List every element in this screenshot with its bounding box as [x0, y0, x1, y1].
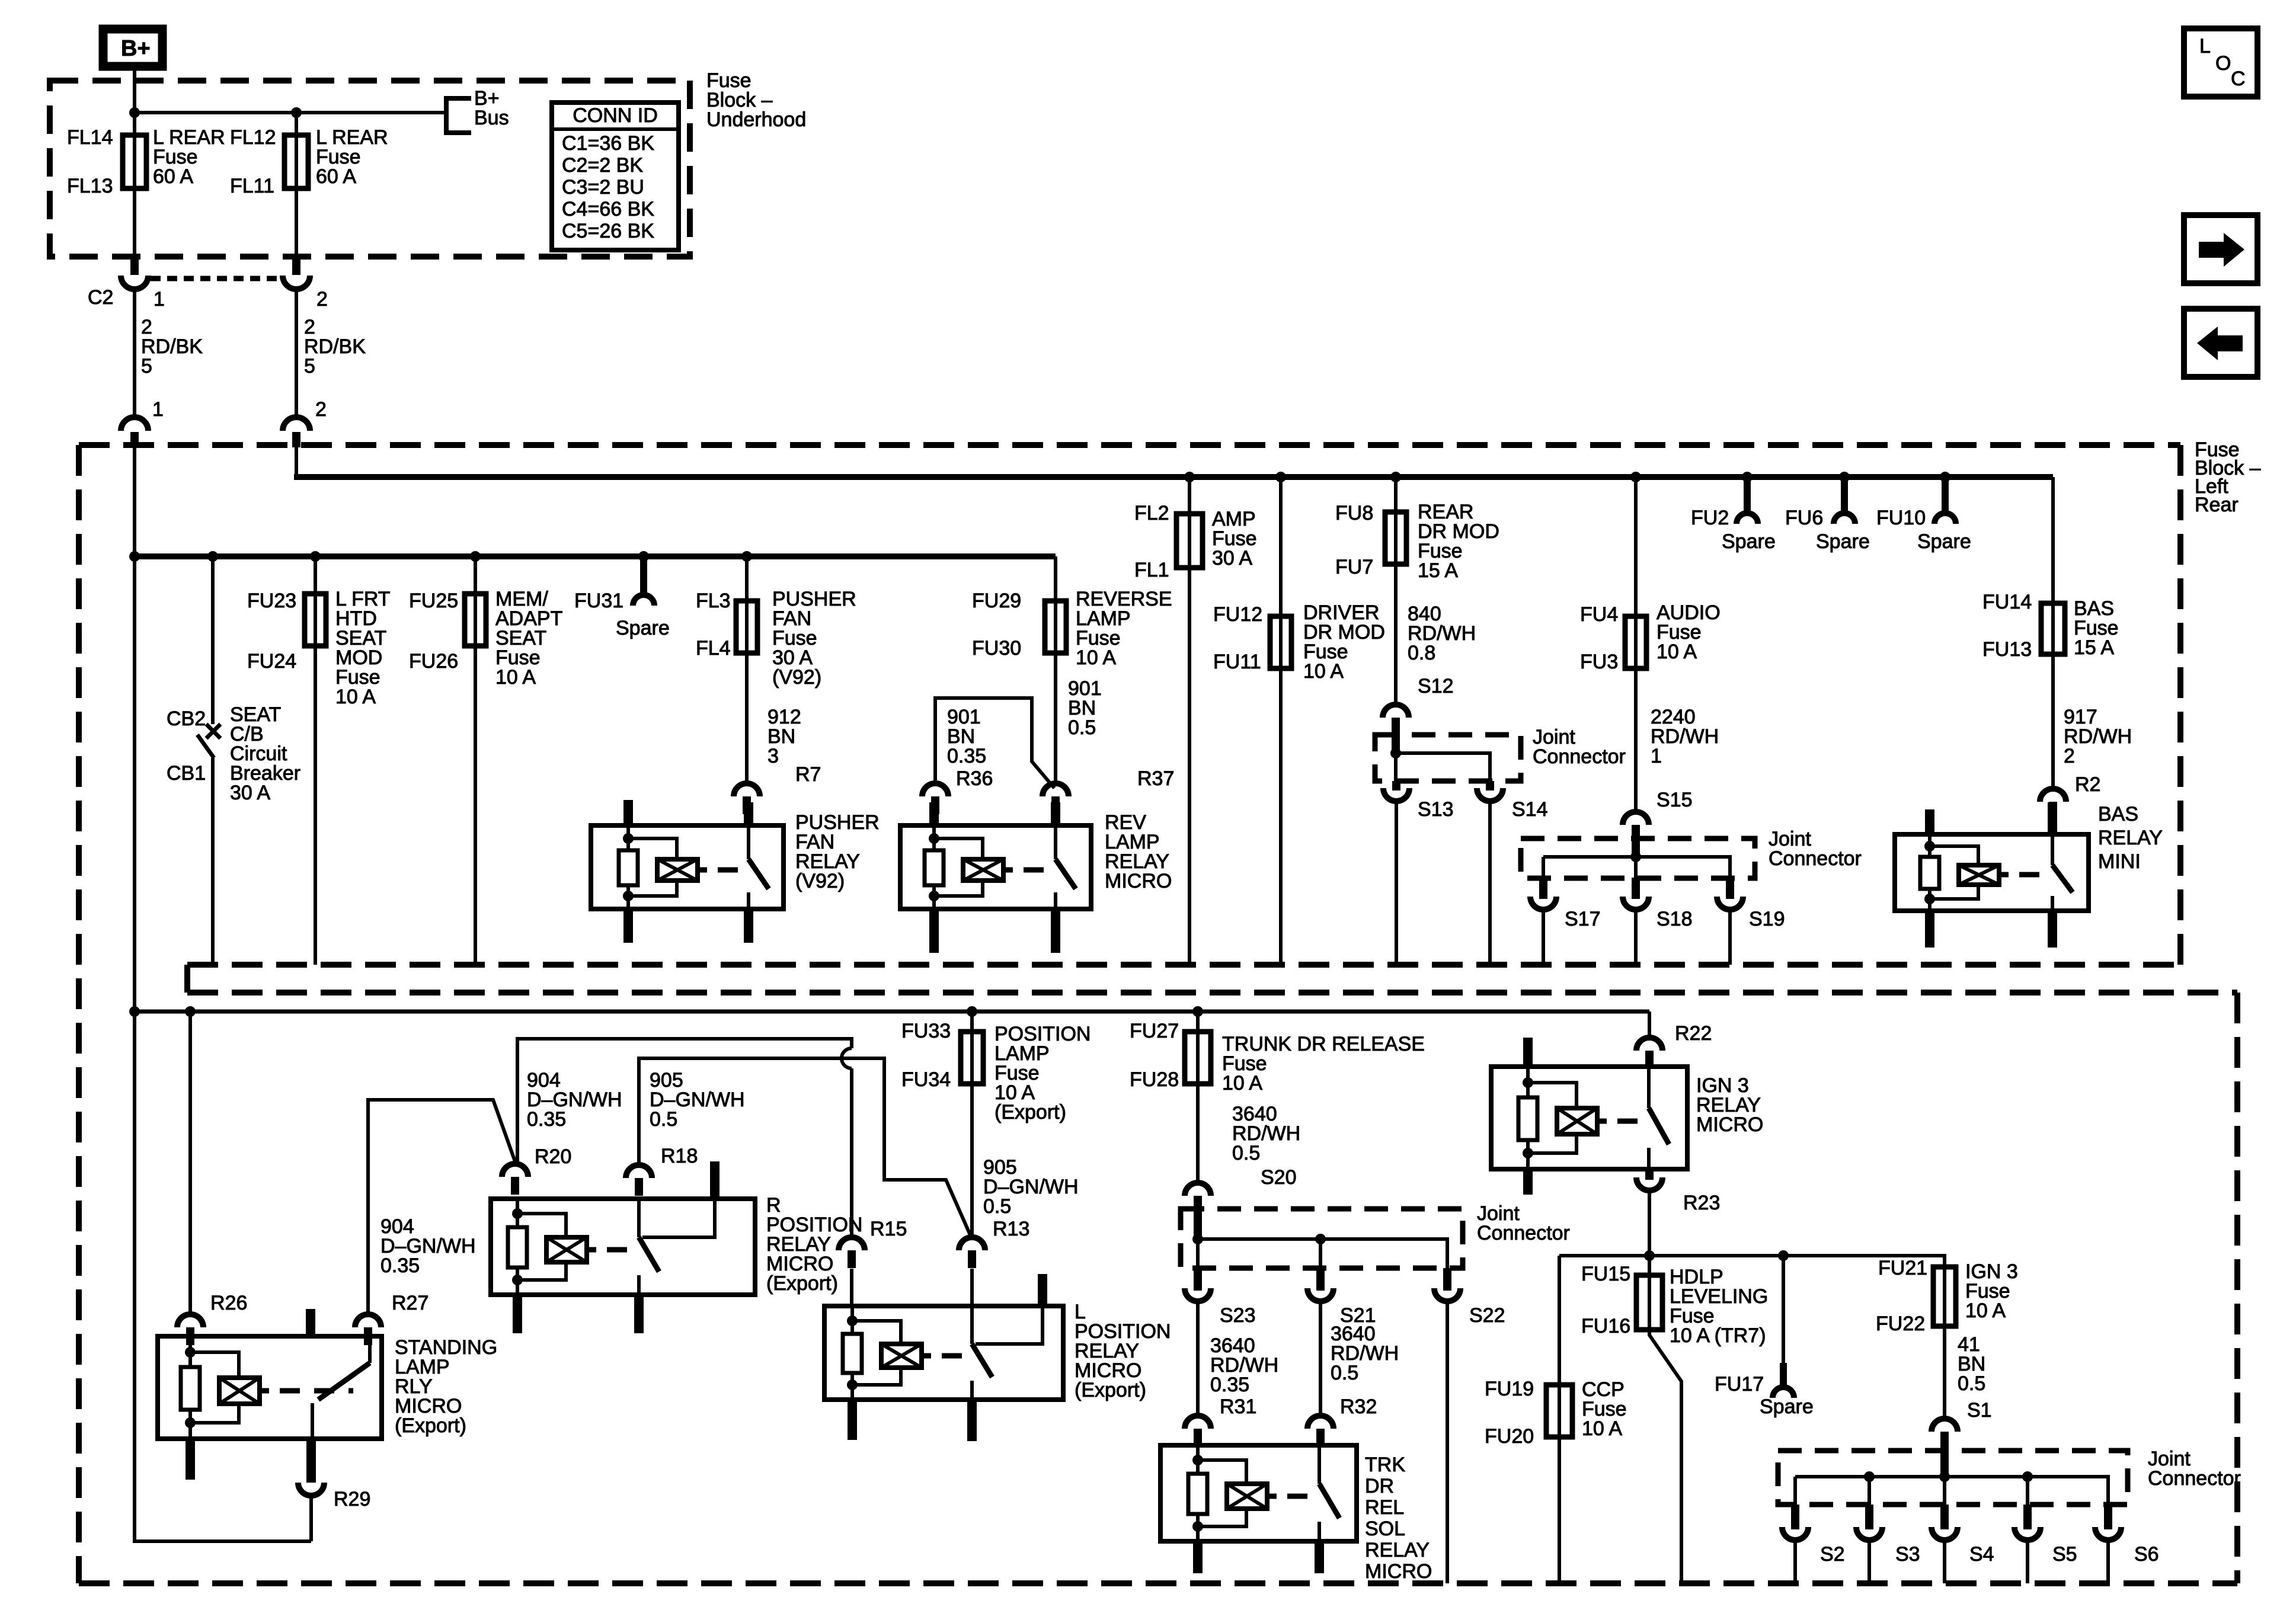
connector R15: [839, 1237, 865, 1250]
svg-text:FU13: FU13: [1982, 638, 2032, 661]
svg-text:MICRO: MICRO: [1696, 1113, 1763, 1136]
fuse FL14/FL13 L REAR 60A: [133, 135, 136, 188]
svg-text:2: 2: [316, 288, 328, 311]
svg-text:S15: S15: [1657, 789, 1693, 811]
fuse FU23/FU24 L FRT HTD SEAT MOD 10A: [314, 594, 317, 646]
wire lower bus: [135, 1010, 1649, 1014]
svg-text:(Export): (Export): [1075, 1379, 1146, 1401]
connector R20: [502, 1164, 528, 1177]
fuse FU8/FU7 REAR DR MOD 15A: [1394, 512, 1398, 564]
B+ Bus terminal stub: [446, 98, 471, 133]
joint connector S1/S2-S6 dashed box: [1778, 1451, 2128, 1505]
fuse FL2/FL1 AMP 30A: [1188, 514, 1191, 568]
relay trunk release solenoid coil symbol: [1227, 1484, 1267, 1509]
wire S19 down: [1728, 910, 1732, 965]
svg-text:RELAY: RELAY: [1365, 1539, 1430, 1561]
wire to CCP fuse: [1558, 1256, 1561, 1385]
svg-text:C2=2 BK: C2=2 BK: [562, 154, 643, 177]
wire 3640 RD/WH 0.5 to S20: [1196, 1084, 1200, 1182]
svg-text:10 A: 10 A: [1222, 1072, 1262, 1094]
svg-text:FU26: FU26: [409, 650, 458, 673]
wire FL13 to C2 pin1: [133, 188, 136, 257]
connector S4: [1940, 1505, 1949, 1529]
connector S13: [1392, 781, 1400, 790]
svg-text:1: 1: [154, 288, 165, 311]
fuse FU33/FU34 POSITION LAMP 10A export: [970, 1012, 974, 1032]
arrow box left: [2184, 309, 2257, 377]
spare fuse cavity FU17: [1782, 1256, 1785, 1363]
connector C2 dotted mating line: [151, 276, 280, 281]
svg-text:FL11: FL11: [230, 175, 274, 197]
relay R position solenoid coil symbol: [546, 1237, 587, 1262]
joint connector bar S1-S6: [1940, 1432, 1949, 1480]
CONN ID table: [552, 103, 679, 250]
svg-text:S14: S14: [1512, 798, 1548, 821]
relay rev lamp coil top pin stub: [929, 802, 939, 827]
svg-text:DR: DR: [1365, 1475, 1394, 1497]
svg-text:(V92): (V92): [772, 666, 821, 689]
relay L position coil bottom pin stub: [848, 1398, 857, 1440]
arrow box right: [2184, 215, 2257, 283]
relay rev lamp switch top pin stub: [1051, 802, 1060, 827]
relay trunk release coil: [1196, 1445, 1200, 1474]
wire to FL3: [745, 556, 749, 601]
svg-text:10 A: 10 A: [495, 666, 536, 689]
svg-text:FL4: FL4: [696, 637, 731, 660]
svg-text:Spare: Spare: [1917, 530, 1971, 553]
relay L position actuator dashed link: [942, 1353, 965, 1359]
svg-text:15 A: 15 A: [2074, 636, 2114, 659]
svg-text:0.35: 0.35: [527, 1108, 566, 1131]
svg-text:R13: R13: [993, 1218, 1029, 1240]
wire 904 D-GN/WH 0.35 R27 to R20: [368, 1100, 515, 1313]
fuse FL3/FL4 PUSHER FAN 30A V92: [745, 601, 749, 653]
relay pusher fan unused pin stub: [623, 800, 633, 827]
wire CCP down: [1558, 1437, 1561, 1583]
wire FU24 down: [314, 646, 317, 965]
svg-text:MINI: MINI: [2098, 850, 2141, 873]
svg-text:FU34: FU34: [901, 1068, 951, 1091]
svg-text:R37: R37: [1137, 767, 1174, 790]
junction FU31 tap: [638, 551, 649, 562]
wire to FL12: [295, 113, 298, 135]
svg-text:FU30: FU30: [972, 637, 1021, 660]
spare fuse cavity FU2: [1742, 472, 1753, 482]
wire hop at R15 drop: [842, 1048, 852, 1068]
relay BAS coil: [1928, 834, 1932, 857]
wire 3640 RD/WH 0.5 to R32: [1319, 1301, 1322, 1414]
svg-text:FU28: FU28: [1130, 1068, 1179, 1091]
svg-text:FU20: FU20: [1485, 1425, 1534, 1448]
svg-text:FU3: FU3: [1580, 651, 1618, 673]
connector S21: [1316, 1268, 1325, 1291]
svg-text:FU25: FU25: [409, 590, 458, 612]
wire S18 down: [1634, 910, 1638, 965]
circuit breaker CB2/CB1 SEAT C/B 30A: [211, 556, 215, 724]
relay trunk release switch: [1318, 1445, 1321, 1484]
fuse FU15/FU16 HDLP LEVELING 10A TR7: [1648, 1275, 1651, 1330]
relay pusher fan solenoid coil symbol: [657, 859, 698, 881]
svg-text:0.5: 0.5: [1232, 1142, 1260, 1164]
connector R26: [177, 1314, 203, 1327]
relay rev lamp coil: [932, 825, 936, 850]
svg-text:0.35: 0.35: [380, 1254, 420, 1277]
svg-text:0.8: 0.8: [1408, 642, 1435, 664]
svg-text:FU22: FU22: [1876, 1313, 1925, 1335]
wire S14 down: [1488, 801, 1492, 965]
wire S17 down: [1542, 910, 1545, 965]
spare fuse cavity FU31: [640, 556, 647, 594]
wire R29 to spine: [309, 1497, 313, 1541]
junction standing lamp tap: [185, 1006, 196, 1017]
svg-text:S1: S1: [1967, 1399, 1992, 1422]
svg-text:TRK: TRK: [1365, 1454, 1405, 1476]
wire 901 BN 0.5 to R37: [1054, 653, 1057, 782]
wire B+ to FL14: [133, 71, 136, 135]
svg-text:S13: S13: [1418, 798, 1454, 821]
wire FU26 down: [474, 646, 477, 965]
svg-text:R32: R32: [1340, 1395, 1377, 1418]
svg-text:S23: S23: [1220, 1304, 1256, 1327]
relay BAS switch bottom pin stub: [2048, 910, 2057, 948]
relay pusher fan box: [591, 825, 784, 909]
svg-text:RELAY: RELAY: [2098, 827, 2163, 849]
relay pusher fan actuator dashed link: [718, 868, 741, 873]
wire S3 down: [1868, 1540, 1871, 1583]
connector S6: [2104, 1505, 2112, 1529]
svg-text:R23: R23: [1683, 1192, 1720, 1214]
relay rev lamp actuator dashed link: [1024, 868, 1048, 873]
svg-text:FU11: FU11: [1213, 651, 1261, 673]
svg-text:Connector: Connector: [2148, 1467, 2241, 1490]
svg-text:0.5: 0.5: [650, 1108, 677, 1131]
dashed box Fuse Block - Left Rear bottom section: [187, 990, 2237, 996]
wire to FU4: [1634, 477, 1638, 616]
junction B+ bus: [129, 107, 140, 118]
svg-text:0.35: 0.35: [947, 745, 986, 767]
relay R position unused pin stub: [710, 1161, 720, 1200]
junction spine/lower-bus: [129, 1006, 140, 1017]
connector S14: [1486, 781, 1494, 790]
svg-text:2: 2: [315, 398, 327, 421]
dashed box Fuse Block - Underhood: [50, 81, 690, 257]
wire to FL2: [1188, 477, 1191, 514]
connector C2 pin 1 (bottom half): [121, 417, 148, 431]
relay pusher fan coil: [626, 825, 630, 850]
fuse FL12/FL11 L REAR 60A: [295, 135, 298, 188]
fuse FU21/FU22 IGN 3 10A: [1943, 1267, 1946, 1326]
svg-text:5: 5: [304, 355, 315, 377]
svg-text:FL13: FL13: [67, 175, 113, 197]
svg-text:REL: REL: [1365, 1496, 1404, 1519]
svg-text:FU2: FU2: [1691, 507, 1729, 529]
relay IGN3 solenoid coil symbol: [1557, 1108, 1597, 1134]
svg-text:C5=26 BK: C5=26 BK: [562, 220, 654, 242]
relay L position coil: [850, 1306, 854, 1334]
svg-text:C3=2 BU: C3=2 BU: [562, 176, 644, 199]
relay IGN3 unused pin stub: [1523, 1038, 1533, 1068]
relay rev lamp box: [900, 825, 1091, 909]
svg-text:S18: S18: [1657, 908, 1693, 930]
wire HDLP down with jog: [1649, 1330, 1681, 1583]
relay L position unused pin stub: [1038, 1274, 1047, 1307]
svg-text:R26: R26: [210, 1292, 247, 1314]
svg-text:FU19: FU19: [1485, 1378, 1534, 1400]
svg-text:R27: R27: [392, 1292, 428, 1314]
relay IGN3 coil: [1526, 1067, 1530, 1097]
LOC reference box: [2184, 28, 2257, 97]
svg-text:CB2: CB2: [167, 708, 206, 730]
svg-text:Bus: Bus: [474, 107, 509, 129]
svg-text:B+: B+: [121, 36, 151, 61]
svg-text:FU10: FU10: [1876, 507, 1926, 529]
svg-text:2: 2: [2064, 745, 2075, 767]
wire 840 RD/WH 0.8 to S12: [1394, 564, 1398, 703]
connector S12: [1383, 705, 1409, 718]
relay pusher fan switch: [747, 825, 750, 859]
svg-text:S3: S3: [1895, 1543, 1920, 1566]
fuse FU25/FU26 MEM/ADAPT SEAT 10A: [474, 594, 477, 646]
relay BAS actuator dashed link: [2019, 872, 2045, 878]
wire 2240 RD/WH 1 to S15: [1634, 668, 1638, 811]
relay standing lamp coil: [188, 1336, 192, 1367]
svg-text:60 A: 60 A: [316, 165, 356, 188]
junction FL3 tap: [741, 551, 752, 562]
wire left spine from C2-1: [135, 447, 311, 1541]
spare fuse cavity FU10: [1940, 472, 1950, 482]
relay BAS box: [1895, 834, 2089, 911]
svg-text:S17: S17: [1565, 908, 1601, 930]
relay R position coil bottom pin stub: [513, 1294, 522, 1333]
relay IGN3 box: [1491, 1067, 1687, 1169]
fuse FU19/FU20 CCP 10A: [1558, 1385, 1561, 1437]
junction FU8 tap: [1390, 472, 1401, 482]
svg-text:MICRO: MICRO: [1365, 1560, 1432, 1583]
relay L position solenoid coil symbol: [881, 1344, 922, 1368]
junction FU23 tap: [310, 551, 321, 562]
wire S2 down: [1793, 1540, 1797, 1583]
wire S4 down: [1943, 1540, 1946, 1583]
svg-text:FU7: FU7: [1335, 556, 1373, 578]
svg-text:0.5: 0.5: [1958, 1372, 1985, 1395]
svg-text:10 A: 10 A: [335, 686, 376, 708]
connector R31: [1185, 1416, 1211, 1429]
svg-text:S20: S20: [1261, 1166, 1297, 1189]
svg-text:R29: R29: [334, 1488, 370, 1510]
relay rev lamp switch bottom pin stub: [1051, 908, 1060, 953]
junction FL12 tap: [291, 107, 302, 118]
relay standing lamp coil bottom pin stub: [186, 1438, 195, 1480]
svg-text:FU27: FU27: [1130, 1020, 1179, 1042]
connector S1: [1932, 1419, 1958, 1432]
svg-text:R20: R20: [535, 1145, 571, 1168]
svg-text:R2: R2: [2075, 773, 2100, 796]
svg-text:R31: R31: [1220, 1395, 1256, 1418]
B+ power terminal box: [103, 29, 162, 66]
svg-text:R15: R15: [870, 1218, 907, 1240]
junction spine/sub-bus: [129, 551, 140, 562]
svg-text:(Export): (Export): [994, 1101, 1066, 1124]
svg-text:30 A: 30 A: [230, 782, 270, 804]
wire HDLP feed bus: [1559, 1256, 1945, 1267]
svg-text:L: L: [2199, 35, 2211, 57]
spare fuse cavity FU6: [1839, 472, 1850, 482]
wire main bus from C2-2: [295, 447, 298, 477]
svg-text:(V92): (V92): [795, 870, 845, 892]
svg-text:Connector: Connector: [1477, 1222, 1570, 1244]
svg-text:S6: S6: [2134, 1543, 2159, 1566]
wire FL11 to C2 pin2: [295, 188, 298, 257]
svg-text:0.5: 0.5: [1331, 1362, 1358, 1384]
relay standing lamp box: [158, 1336, 382, 1439]
wire 3640 RD/WH 0.35 to R31: [1196, 1301, 1200, 1414]
wire to FU25: [474, 556, 477, 594]
standing lamp relay switch: [368, 1336, 372, 1363]
wire FU11 down: [1279, 668, 1283, 965]
svg-text:MICRO: MICRO: [1105, 870, 1172, 892]
svg-text:0.35: 0.35: [1210, 1374, 1249, 1396]
wire 905 D-GN/WH 0.5 R18 to R13: [639, 1058, 970, 1235]
relay standing lamp actuator dashed link: [280, 1388, 353, 1394]
fuse FU27/FU28 TRUNK DR RELEASE 10A: [1196, 1012, 1200, 1032]
connector R23: [1645, 1169, 1654, 1180]
relay trunk release actuator dashed link: [1287, 1494, 1312, 1499]
standing lamp switch output to R29: [306, 1438, 316, 1483]
svg-text:S19: S19: [1749, 908, 1785, 930]
connector S22: [1443, 1268, 1451, 1291]
relay R position coil: [516, 1199, 519, 1227]
relay standing lamp solenoid coil symbol: [219, 1378, 260, 1404]
wire 904 link R20-R15: [517, 1039, 852, 1163]
svg-text:10 A (TR7): 10 A (TR7): [1670, 1324, 1766, 1347]
svg-text:R36: R36: [956, 767, 993, 790]
connector R37: [1043, 783, 1069, 796]
connector S3: [1865, 1505, 1873, 1529]
fuse FU14/FU13 BAS 15A: [2051, 603, 2055, 654]
svg-text:15 A: 15 A: [1418, 559, 1458, 582]
connector R7: [734, 783, 760, 796]
svg-text:R22: R22: [1675, 1022, 1712, 1045]
svg-text:C4=66 BK: C4=66 BK: [562, 198, 654, 220]
wire C2-1 2 RD/BK 5: [133, 290, 136, 416]
relay rev lamp solenoid coil symbol: [963, 859, 1003, 881]
svg-text:S22: S22: [1469, 1304, 1505, 1327]
svg-text:10 A: 10 A: [1582, 1417, 1622, 1440]
junction FU17 tap: [1778, 1250, 1789, 1261]
wire to FU8: [1394, 477, 1398, 512]
connector R36: [922, 783, 948, 796]
junction R23/HDLP: [1644, 1250, 1655, 1261]
wire sub bus: [135, 553, 1056, 559]
connector S19: [1726, 878, 1734, 899]
svg-text:CB1: CB1: [167, 762, 206, 785]
connector C2 pin 2 (top half): [292, 257, 300, 275]
svg-text:(Export): (Export): [766, 1272, 838, 1295]
svg-text:C2: C2: [88, 286, 113, 309]
svg-text:FU14: FU14: [1982, 591, 2032, 613]
svg-text:C1=36 BK: C1=36 BK: [562, 132, 654, 155]
svg-text:10 A: 10 A: [1965, 1299, 2006, 1322]
svg-text:FU12: FU12: [1213, 603, 1262, 626]
joint connector S12/S13/S14 dashed box: [1375, 735, 1521, 781]
svg-text:FU8: FU8: [1335, 502, 1373, 524]
svg-text:3: 3: [768, 745, 779, 767]
svg-text:FL2: FL2: [1134, 502, 1169, 524]
wire 912 BN 3 to R7: [745, 653, 749, 782]
connector S23: [1194, 1268, 1202, 1291]
svg-text:Rear: Rear: [2195, 494, 2239, 516]
svg-text:Spare: Spare: [1816, 530, 1870, 553]
svg-text:1: 1: [1651, 745, 1662, 767]
connector R18: [626, 1165, 652, 1178]
svg-text:5: 5: [141, 355, 152, 377]
connector S2: [1791, 1505, 1799, 1529]
relay R position actuator dashed link: [607, 1247, 632, 1253]
relay standing lamp unused pin stub: [306, 1309, 315, 1337]
svg-text:BAS: BAS: [2098, 803, 2138, 825]
junction FU4 tap: [1630, 472, 1641, 482]
relay R position box: [491, 1199, 755, 1295]
svg-text:S12: S12: [1418, 675, 1454, 697]
svg-text:FU29: FU29: [972, 590, 1021, 612]
relay R position switch: [637, 1199, 641, 1237]
junction CB tap: [207, 551, 218, 562]
relay BAS unused pin stub: [1925, 809, 1934, 836]
svg-text:R18: R18: [661, 1145, 698, 1167]
svg-text:FU21: FU21: [1878, 1257, 1927, 1279]
joint connector S15/S17/S18/S19 dashed box: [1521, 838, 1755, 878]
wire S22 down: [1446, 1301, 1449, 1583]
connector S5: [2023, 1505, 2032, 1529]
joint connector bar S12-S14: [1392, 735, 1400, 754]
wire FL1 down: [1188, 568, 1191, 965]
svg-text:1: 1: [152, 398, 164, 421]
relay BAS solenoid coil symbol: [1959, 865, 1999, 885]
joint connector bar S20-S22: [1194, 1196, 1202, 1239]
wire to FU23: [314, 556, 317, 594]
relay rev lamp coil bottom pin stub: [929, 908, 939, 953]
svg-text:FU24: FU24: [247, 650, 296, 673]
svg-text:(Export): (Export): [395, 1414, 466, 1437]
svg-text:FU15: FU15: [1581, 1263, 1630, 1285]
connector R22: [1636, 1038, 1662, 1051]
wire B+ bus horizontal: [135, 111, 446, 114]
connector S15: [1623, 812, 1649, 825]
joint connector S20/S23/S21/S22 dashed box: [1181, 1209, 1463, 1268]
connector R27: [355, 1314, 381, 1327]
svg-text:0.5: 0.5: [983, 1195, 1011, 1218]
wire to R26: [188, 1012, 192, 1313]
svg-text:Connector: Connector: [1533, 745, 1626, 768]
svg-text:CONN ID: CONN ID: [573, 104, 658, 127]
svg-text:10 A: 10 A: [1657, 641, 1697, 663]
svg-text:FL1: FL1: [1134, 559, 1169, 581]
relay BAS coil bottom pin stub: [1925, 910, 1934, 948]
svg-text:FU6: FU6: [1785, 507, 1823, 529]
svg-text:FU31: FU31: [574, 590, 623, 612]
svg-text:10 A: 10 A: [1076, 646, 1116, 669]
svg-text:Spare: Spare: [1760, 1395, 1814, 1418]
svg-text:S2: S2: [1820, 1543, 1845, 1566]
svg-text:S5: S5: [2052, 1543, 2077, 1566]
relay IGN3 actuator dashed link: [1617, 1119, 1642, 1124]
joint connector bar S15-S19: [1632, 825, 1640, 858]
junction FU25 tap: [470, 551, 481, 562]
relay rev lamp switch: [1054, 825, 1057, 859]
connector S18: [1632, 878, 1640, 899]
relay L position box: [824, 1306, 1063, 1400]
relay BAS switch top pin stub: [2048, 802, 2057, 836]
